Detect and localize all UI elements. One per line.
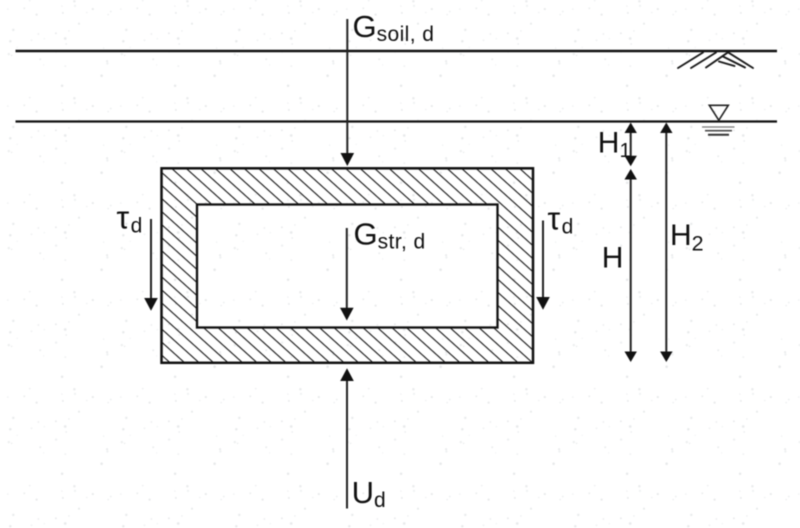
- H dimension arrow: [625, 169, 637, 362]
- G_str,d arrow: [340, 228, 354, 321]
- right tau_d arrow: [536, 221, 550, 310]
- structure box inner border: [197, 205, 498, 328]
- svg-text:H: H: [602, 242, 624, 275]
- structure box hatched ring: [162, 168, 534, 362]
- H1 dimension arrow: [625, 123, 637, 167]
- ground surface line: [16, 50, 778, 52]
- ground surface hatch marks: [678, 52, 753, 68]
- water table symbol: [702, 105, 735, 134]
- U_d arrow: [340, 368, 354, 508]
- left tau_d arrow: [144, 219, 158, 311]
- G_soil,d arrow: [341, 19, 355, 166]
- H2 dimension arrow: [660, 123, 672, 363]
- structure box outer border: [162, 168, 534, 362]
- water table line: [16, 120, 778, 122]
